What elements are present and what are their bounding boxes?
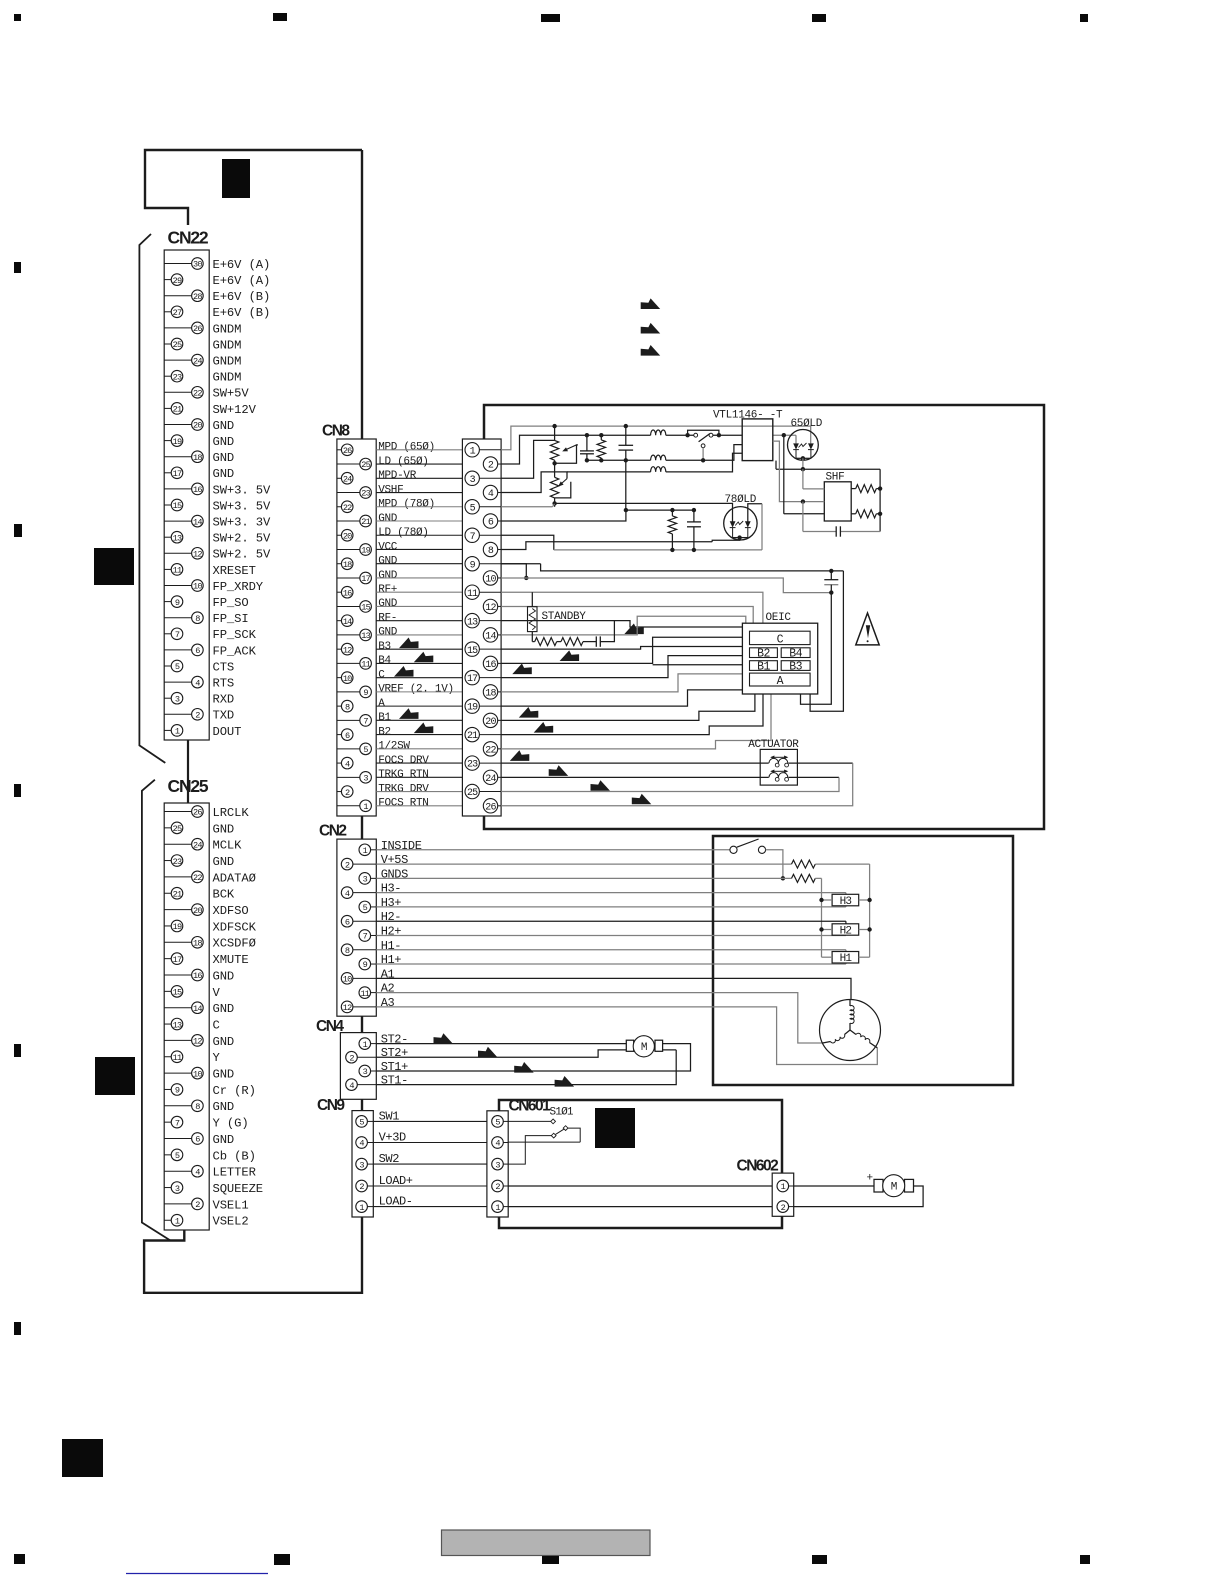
svg-text:7: 7 — [363, 932, 368, 942]
svg-text:CN9: CN9 — [317, 1097, 345, 1114]
net LOAD+ row — [508, 1185, 777, 1187]
H2 right stub — [859, 929, 870, 931]
svg-text:RTS: RTS — [213, 677, 235, 691]
CN22 pin 8 (FP_SI) — [164, 617, 191, 619]
svg-text:23: 23 — [467, 760, 478, 771]
pickup-strip pin 12 — [483, 599, 497, 613]
CN8 pin 22 (MPD (78Ø)) — [337, 506, 341, 508]
svg-text:8: 8 — [345, 946, 350, 956]
svg-text:30: 30 — [193, 260, 202, 270]
svg-text:20: 20 — [343, 531, 352, 541]
CN8 label-side flag C — [394, 666, 414, 677]
CN25 pin 15 (V) — [164, 990, 171, 992]
svg-text:22: 22 — [485, 745, 496, 756]
net TRKG RTN row24 — [501, 776, 769, 778]
svg-text:RF-: RF- — [378, 612, 397, 624]
pickup-strip pin 16 — [483, 656, 497, 670]
net row9 wire — [501, 563, 540, 565]
capacitor C2 upper lead — [625, 426, 627, 445]
CN25 pin 2 (VSEL1) — [164, 1203, 191, 1205]
svg-text:17: 17 — [173, 469, 182, 479]
svg-text:GND: GND — [378, 627, 398, 639]
board outline between CN8 and CN2 — [361, 816, 363, 839]
loading unit enclosure — [499, 1100, 782, 1173]
svg-text:2: 2 — [195, 1200, 200, 1210]
photo block left upper — [94, 548, 134, 585]
svg-text:CN22: CN22 — [168, 228, 209, 248]
svg-text:TXD: TXD — [213, 709, 235, 723]
CN8 pin 16 (RF+) — [337, 591, 341, 593]
net A3 — [376, 1007, 877, 1065]
CN601 pin 1 — [492, 1201, 504, 1213]
net VCC row — [501, 542, 712, 550]
svg-text:26: 26 — [485, 802, 496, 813]
flag row19 — [519, 707, 539, 718]
svg-text:23: 23 — [361, 489, 370, 499]
svg-text:MPD (65Ø): MPD (65Ø) — [378, 442, 435, 454]
svg-text:2: 2 — [345, 860, 350, 870]
svg-text:1: 1 — [363, 1040, 368, 1050]
svg-text:GND: GND — [213, 1068, 235, 1082]
CN25 pin 1 (VSEL2) — [164, 1219, 171, 1221]
OEIC cell B2 — [750, 648, 778, 658]
svg-text:24: 24 — [193, 356, 202, 366]
svg-text:13: 13 — [173, 533, 182, 543]
junction dot bypass a — [685, 433, 689, 437]
svg-text:21: 21 — [361, 517, 370, 527]
CN22 pin 21 (SW+12V) — [164, 407, 171, 409]
net MPD-VR — [501, 440, 554, 478]
svg-text:GND: GND — [378, 570, 398, 582]
junction dot C1 bottom — [585, 458, 589, 462]
svg-text:SQUEEZE: SQUEEZE — [213, 1182, 264, 1196]
780LD photodiode squiggle — [735, 521, 743, 526]
CN8 pin 6 (B2) — [337, 734, 341, 736]
svg-text:A1: A1 — [381, 967, 395, 981]
650LD cathode bar — [795, 450, 797, 459]
svg-text:26: 26 — [193, 324, 202, 334]
net MPD(650) rail — [501, 426, 811, 450]
CN8 pin 11 (B4) — [337, 662, 360, 664]
svg-text:MPD-VR: MPD-VR — [378, 470, 417, 482]
net railB wrap to OEIC — [810, 571, 843, 711]
CN8 pin 19 (VCC) — [337, 548, 360, 550]
svg-text:10: 10 — [193, 1069, 202, 1079]
net 1/2SW row22 — [501, 694, 771, 749]
connector pickup-strip body — [462, 439, 501, 816]
CN22 pin 19 (GND) — [164, 440, 171, 442]
junction dot RC rail left — [624, 508, 628, 512]
pickup-strip pin 25 — [465, 784, 479, 798]
junction dot SHF pin2 — [801, 499, 805, 503]
650LD photodiode squiggle — [799, 443, 807, 448]
H3 right stub — [859, 899, 870, 901]
svg-text:VSEL1: VSEL1 — [213, 1198, 249, 1212]
svg-text:78ØLD: 78ØLD — [725, 494, 757, 506]
resistor R5 lower lead — [531, 632, 533, 642]
connector CN4 body — [340, 1033, 376, 1100]
resistor R1 — [597, 440, 605, 458]
pickup-strip pin 20 — [483, 713, 497, 727]
net row9 branch to row10 — [501, 564, 526, 578]
OEIC cell A — [750, 673, 811, 686]
svg-text:8: 8 — [345, 702, 350, 712]
svg-text:C: C — [378, 669, 385, 681]
svg-text:TRKG DRV: TRKG DRV — [378, 783, 429, 795]
gray footer box — [442, 1530, 651, 1556]
net RC chain — [532, 641, 534, 643]
net CN602-1 to motor — [794, 1185, 874, 1187]
CN8 pin 17 (GND) — [337, 577, 360, 579]
CN8 pin 4 (FOCS DRV) — [337, 762, 341, 764]
junction dot INSIDE/GNDS — [781, 876, 785, 880]
svg-text:+: + — [867, 1173, 873, 1185]
net RF- row13 — [501, 621, 742, 627]
pickup-strip pin 13 — [465, 613, 479, 627]
svg-text:B2: B2 — [757, 647, 770, 660]
pickup-strip pin 19 — [465, 699, 479, 713]
switch S2 contact b — [758, 846, 765, 853]
CN8 pin 3 (TRKG RTN) — [337, 776, 360, 778]
junction dot rail1/cap — [624, 424, 628, 428]
flag row20 — [534, 722, 554, 733]
laser diode 780LD body — [724, 507, 757, 540]
board outline between CN2 and CN4 — [361, 1016, 363, 1032]
svg-text:Y: Y — [213, 1051, 221, 1065]
svg-text:M: M — [891, 1182, 897, 1194]
svg-text:1: 1 — [470, 446, 476, 457]
pickup-strip pin 4 — [483, 485, 497, 499]
CN8 pin 8 (A) — [337, 705, 341, 707]
CN22 pin 1 (DOUT) — [164, 729, 171, 731]
junction dot RC top b — [692, 508, 696, 512]
inductor L1 — [651, 430, 666, 435]
registration mark left y1322 — [14, 1322, 21, 1335]
net LD(650) rail left of coil — [501, 435, 650, 464]
svg-text:1: 1 — [175, 1216, 180, 1226]
pickup-strip pin 2 — [483, 457, 497, 471]
board outline top notch — [145, 150, 362, 225]
resistor R1 leads — [600, 435, 602, 440]
svg-text:27: 27 — [173, 308, 182, 318]
CN25 pin 9 (Cr (R)) — [164, 1088, 171, 1090]
junction dot rail/C4 — [692, 548, 696, 552]
flag row25 — [632, 794, 652, 805]
svg-text:CN601: CN601 — [509, 1098, 552, 1115]
net H3- — [376, 892, 846, 894]
S101 contact no — [563, 1126, 568, 1131]
flag marker 2 — [641, 323, 661, 334]
svg-text:GNDS: GNDS — [381, 867, 408, 881]
net SW2 to S101 — [508, 1136, 551, 1165]
svg-text:H3+: H3+ — [381, 896, 402, 910]
svg-text:15: 15 — [361, 603, 370, 613]
connector CN2 body — [337, 839, 376, 1016]
svg-text:18: 18 — [193, 939, 202, 949]
motor M2 sled right brush — [655, 1040, 663, 1051]
svg-text:MPD (78Ø): MPD (78Ø) — [378, 499, 435, 511]
svg-text:FOCS RTN: FOCS RTN — [378, 798, 428, 810]
resistor R5 STANDBY — [528, 607, 538, 632]
S101 contact common — [551, 1133, 556, 1138]
CN8 label-side flag B4 — [414, 652, 434, 663]
registration mark top-left — [14, 14, 21, 21]
H2 left stub — [822, 929, 833, 931]
CN8 pin 15 (GND) — [337, 605, 360, 607]
net B3 row15 — [501, 647, 742, 650]
svg-text:9: 9 — [363, 960, 368, 970]
CN4 pin 2 (ST2+) — [357, 1056, 376, 1058]
actuator body — [760, 749, 797, 785]
CN8 pin 26 (MPD (65Ø)) — [337, 449, 341, 451]
svg-text:4: 4 — [195, 678, 200, 688]
capacitor C1 plates — [580, 450, 594, 452]
connector CN9 body — [352, 1111, 373, 1217]
pickup-strip pin 11 — [465, 585, 479, 599]
junction dot switch lower — [701, 458, 705, 462]
svg-text:3: 3 — [363, 774, 368, 784]
svg-text:FP_XRDY: FP_XRDY — [213, 580, 264, 594]
net MPD(780) row — [501, 506, 552, 508]
CN8 pin 5 (1/2SW) — [337, 748, 360, 750]
net B4 row16 — [501, 637, 742, 663]
OEIC cell B1 — [750, 661, 778, 671]
pickup-strip pin 3 — [465, 471, 479, 485]
CN22 pin 24 (GNDM) — [164, 359, 191, 361]
svg-text:2: 2 — [345, 788, 350, 798]
flag row16 — [512, 664, 532, 675]
CN8 pin 12 (B3) — [337, 648, 341, 650]
svg-text:65ØLD: 65ØLD — [791, 418, 823, 430]
tracking coil arrow — [772, 770, 788, 772]
svg-text:25: 25 — [173, 340, 182, 350]
CN22 pin 7 (FP_SCK) — [164, 633, 171, 635]
net LD(780) anode feed — [748, 504, 762, 522]
svg-text:25: 25 — [361, 460, 370, 470]
net H1+ — [376, 963, 846, 965]
net TRKG return wrap — [501, 777, 839, 791]
capacitor C1 lower lead — [586, 454, 588, 461]
board outline between CN4 and CN9 — [361, 1099, 363, 1110]
svg-text:GND: GND — [213, 822, 235, 836]
svg-text:1: 1 — [363, 802, 368, 812]
OEIC cell B4 — [781, 648, 810, 658]
CN8 pin 7 (B1) — [337, 719, 360, 721]
svg-text:GND: GND — [378, 513, 398, 525]
CN22 pin 6 (FP_ACK) — [164, 649, 191, 651]
resistor R7 — [561, 638, 583, 646]
CN22 pin 13 (SW+2. 5V) — [164, 536, 171, 538]
motor M1 coil right — [856, 1033, 870, 1042]
CN22 pin 11 (XRESET) — [164, 568, 171, 570]
CN22 pin 25 (GNDM) — [164, 343, 171, 345]
capacitor C1 upper lead — [586, 435, 588, 451]
net rail4 — [567, 471, 651, 473]
junction dot VR1 bottom — [552, 461, 556, 465]
svg-text:28: 28 — [193, 292, 202, 302]
CN22 pin 16 (SW+3. 5V) — [164, 488, 191, 490]
switch S1 contact a — [694, 433, 698, 437]
svg-text:12: 12 — [193, 1037, 202, 1047]
CN22 pin 12 (SW+2. 5V) — [164, 552, 191, 554]
H left rail — [821, 878, 823, 957]
registration mark top x541 — [541, 14, 560, 22]
svg-text:5: 5 — [470, 503, 476, 514]
CN8 pin 21 (GND) — [337, 520, 360, 522]
registration mark bottom x1080 — [1080, 1555, 1090, 1564]
svg-text:A2: A2 — [381, 982, 395, 996]
CN602 pin 2 — [777, 1201, 789, 1213]
junction dot R1 top — [599, 433, 603, 437]
net motor return — [794, 1186, 923, 1207]
net R6-R7 — [557, 641, 561, 643]
CN22 pin 20 (GND) — [164, 424, 191, 426]
junction dot rail/R4 — [670, 548, 674, 552]
svg-text:GND: GND — [213, 1035, 235, 1049]
net row9 railB — [541, 564, 844, 571]
svg-text:1: 1 — [363, 846, 368, 856]
laser diode 650LD body — [788, 430, 819, 461]
svg-text:GND: GND — [213, 969, 235, 983]
svg-text:VSEL2: VSEL2 — [213, 1215, 249, 1229]
svg-text:23: 23 — [173, 372, 182, 382]
CN8 pin 23 (VSHF) — [337, 492, 360, 494]
CN9 pin 5 (SW1) — [356, 1116, 368, 1128]
CN2 pin 2 (V+5S) — [353, 863, 376, 865]
svg-text:3: 3 — [363, 1067, 368, 1077]
CN25 pin 12 (GND) — [164, 1039, 191, 1041]
CN22 pin 28 (E+6V (B)) — [164, 295, 191, 297]
net LD(650) VTL to anode — [773, 434, 796, 436]
capacitor C5 — [830, 571, 832, 580]
svg-text:1: 1 — [175, 727, 180, 737]
pot VR1 feed from rail1 — [554, 426, 556, 440]
svg-text:12: 12 — [485, 603, 496, 614]
CN22 pin 18 (GND) — [164, 456, 191, 458]
pickup-strip pin 22 — [483, 742, 497, 756]
svg-text:9: 9 — [175, 1086, 180, 1096]
net LD(650) switch to VTL — [713, 434, 742, 436]
flag ST2- — [434, 1033, 454, 1044]
connector CN22 body — [164, 250, 209, 740]
svg-text:20: 20 — [485, 717, 496, 728]
CN4 pin 3 (ST1+) — [371, 1070, 377, 1072]
motor M2 sled left brush — [626, 1040, 633, 1051]
svg-text:5: 5 — [175, 662, 180, 672]
net S101 to V+3D — [568, 1128, 580, 1142]
svg-text:11: 11 — [173, 566, 182, 576]
svg-text:CN2: CN2 — [319, 823, 346, 840]
net row6 to RC rail — [501, 510, 626, 521]
pickup-strip pin 23 — [465, 756, 479, 770]
svg-text:15: 15 — [173, 501, 182, 511]
resistor R5 STANDBY upper lead — [531, 592, 533, 607]
svg-text:VCC: VCC — [378, 541, 398, 553]
junction dot railB cap — [829, 569, 833, 573]
motor M3 left brush — [874, 1179, 883, 1192]
svg-text:13: 13 — [173, 1020, 182, 1030]
svg-text:E+6V (B): E+6V (B) — [213, 290, 271, 304]
H3 left stub — [822, 899, 833, 901]
OEIC cell C — [750, 631, 811, 644]
svg-text:5: 5 — [359, 1118, 364, 1128]
svg-text:23: 23 — [173, 857, 182, 867]
board outline below CN9 to bottom rail — [144, 1217, 362, 1293]
svg-text:4: 4 — [488, 489, 494, 500]
net R8 to H right rail — [815, 863, 869, 865]
svg-text:16: 16 — [193, 485, 202, 495]
switch S1 lower lead — [702, 448, 704, 461]
svg-text:FP_SO: FP_SO — [213, 596, 249, 610]
svg-text:LRCLK: LRCLK — [213, 806, 250, 820]
svg-text:4: 4 — [359, 1139, 364, 1149]
svg-text:2: 2 — [488, 461, 494, 472]
flex cable bracket at CN25 — [142, 780, 170, 1240]
CN22 pin 27 (E+6V (B)) — [164, 311, 171, 313]
net H2- — [376, 920, 846, 922]
CN25 pin 5 (Cb (B)) — [164, 1154, 171, 1156]
hall sensor H2 — [832, 924, 859, 935]
CN8 pin 25 (LD (65Ø)) — [337, 463, 360, 465]
svg-text:ADATAØ: ADATAØ — [213, 871, 256, 885]
CN25 pin 26 (LRCLK) — [164, 811, 191, 813]
svg-text:RF+: RF+ — [378, 584, 397, 596]
svg-text:11: 11 — [467, 589, 478, 600]
svg-text:6: 6 — [345, 917, 350, 927]
board outline vertical CN8 gap upper — [361, 150, 363, 439]
svg-text:7: 7 — [175, 1118, 180, 1128]
net C row17 — [501, 656, 742, 678]
flex cable bracket at CN22 — [139, 234, 165, 763]
capacitor C3 rail — [802, 502, 804, 532]
footer mark — [542, 1556, 559, 1564]
photo block top — [222, 159, 250, 198]
CN22 pin 3 (RXD) — [164, 697, 171, 699]
wire C2 to RC rail — [625, 460, 627, 510]
svg-text:A: A — [777, 675, 784, 688]
net GND row12 — [501, 606, 753, 623]
650LD left diode — [793, 443, 799, 449]
svg-text:CN602: CN602 — [737, 1158, 779, 1175]
net B4 branch stub — [653, 664, 743, 666]
svg-text:19: 19 — [361, 546, 370, 556]
CN25 pin 16 (GND) — [164, 974, 191, 976]
junction dot C5 bottom — [829, 590, 833, 594]
svg-text:13: 13 — [361, 631, 370, 641]
net RF+ row11 — [501, 592, 763, 623]
svg-text:5: 5 — [495, 1118, 500, 1128]
CN25 pin 25 (GND) — [164, 827, 171, 829]
flag row15 — [560, 650, 580, 661]
svg-text:7: 7 — [470, 532, 476, 543]
svg-text:18: 18 — [485, 688, 496, 699]
motor M2 sled body — [633, 1036, 654, 1057]
CN2 pin 6 (H2-) — [353, 920, 376, 922]
flag row22 — [510, 750, 530, 761]
svg-text:XDFSCK: XDFSCK — [213, 920, 257, 934]
svg-text:12: 12 — [343, 1003, 352, 1013]
svg-text:H3-: H3- — [381, 882, 401, 896]
CN25 pin 24 (MCLK) — [164, 843, 191, 845]
svg-text:4: 4 — [195, 1167, 200, 1177]
CN22 pin 4 (RTS) — [164, 681, 191, 683]
svg-text:25: 25 — [173, 824, 182, 834]
motor M1 coil left — [830, 1035, 844, 1043]
svg-text:XRESET: XRESET — [213, 564, 256, 578]
CN22 pin 5 (CTS) — [164, 665, 171, 667]
net FOCS DRV row23 — [501, 762, 769, 764]
svg-text:A3: A3 — [381, 996, 395, 1010]
